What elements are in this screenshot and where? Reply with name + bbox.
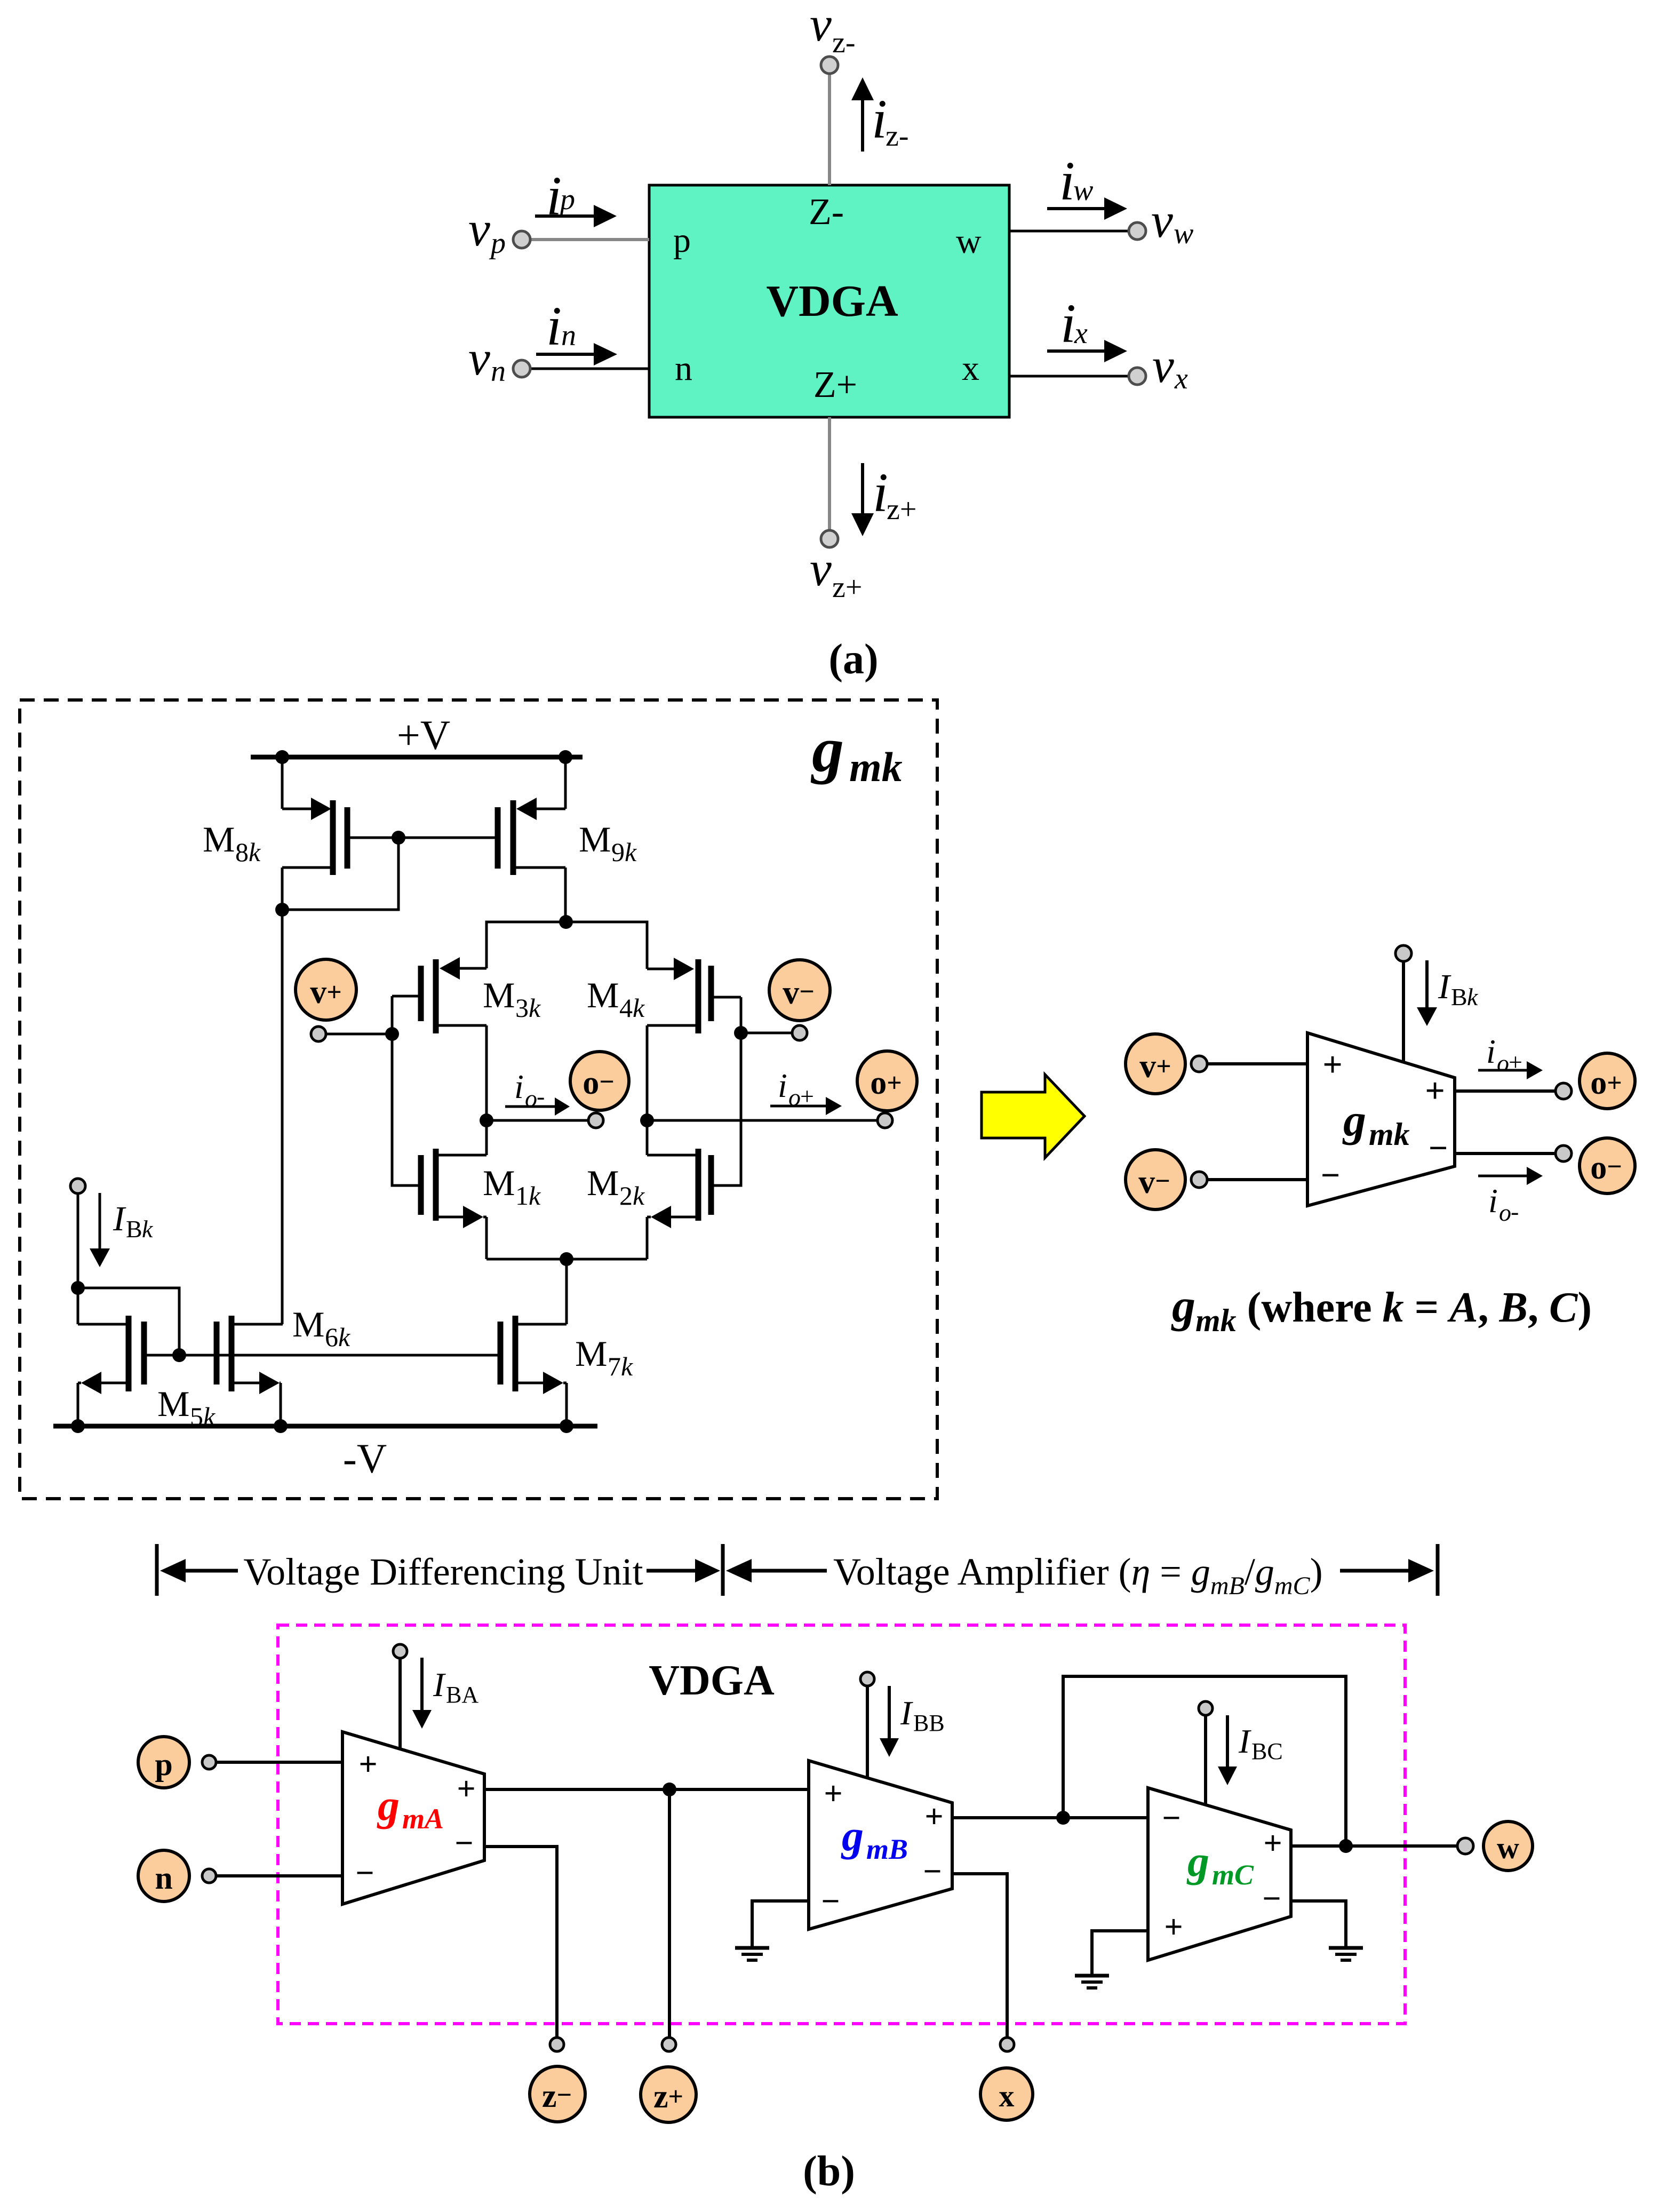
svg-text:w: w (1073, 174, 1093, 207)
svg-text:k: k (633, 1181, 645, 1211)
node dot -V mid (274, 1419, 288, 1433)
svg-text:o−: o− (1590, 1150, 1622, 1186)
wire IBk stem (77, 1193, 79, 1324)
svg-text:mC: mC (1212, 1859, 1254, 1891)
arrow ix (1047, 340, 1127, 362)
svg-text:z−: z− (542, 2078, 572, 2114)
terminal IBB (860, 1672, 874, 1686)
svg-text:M: M (203, 819, 235, 860)
svg-text:n: n (155, 1860, 172, 1896)
svg-text:6: 6 (325, 1322, 338, 1352)
svg-text:+: + (358, 1746, 377, 1783)
arrow IBB (880, 1686, 899, 1757)
node dot +V right (559, 750, 572, 764)
svg-text:o: o (788, 1084, 801, 1111)
svg-text:(a): (a) (828, 636, 878, 683)
OTA gmC trapezoid (1148, 1788, 1291, 1960)
terminal vn (513, 360, 530, 377)
svg-text:−: − (923, 1853, 942, 1890)
terminal z+ (662, 2038, 676, 2051)
svg-text:−: − (1321, 1156, 1340, 1194)
svg-text:g: g (810, 714, 844, 785)
svg-text:M: M (575, 1333, 607, 1374)
terminal vx (1129, 368, 1146, 385)
VDGA block U1 (649, 185, 1009, 417)
dimension bar right (1436, 1544, 1440, 1596)
svg-text:I: I (1438, 967, 1451, 1006)
wire v+ lead (326, 1033, 392, 1036)
svg-text:n: n (561, 319, 576, 352)
node w circle (1483, 1821, 1533, 1871)
terminal x (1000, 2038, 1014, 2051)
OTA gmB trapezoid (809, 1761, 952, 1929)
svg-text:BC: BC (1251, 1738, 1283, 1764)
svg-text:v+: v+ (310, 974, 342, 1010)
node dot IBk (71, 1281, 85, 1295)
wire z- stem (828, 73, 831, 185)
arrow io- (505, 1097, 570, 1116)
wire o- output (486, 1119, 588, 1122)
arrow IBA (412, 1658, 432, 1729)
svg-text:v+: v+ (1139, 1048, 1171, 1085)
node dot +V left (275, 750, 289, 764)
svg-text:k: k (142, 1215, 154, 1243)
terminal vw (1129, 222, 1146, 240)
wire z+ drop (668, 1789, 671, 2038)
svg-text:k: k (249, 837, 261, 867)
svg-text:g: g (841, 1811, 864, 1860)
terminal o- (588, 1113, 603, 1128)
svg-text:BA: BA (446, 1682, 478, 1708)
svg-text:I: I (433, 1666, 446, 1704)
svg-text:i: i (546, 165, 562, 227)
svg-text:k: k (529, 993, 541, 1023)
svg-text:M: M (483, 1163, 515, 1203)
svg-text:I: I (113, 1199, 126, 1238)
wire v- vertical to gates M4k M2k (711, 997, 741, 1185)
dashed enclosure VDGA (278, 1625, 1405, 2024)
ground gmC output (1329, 1948, 1363, 1960)
svg-text:-: - (1511, 1198, 1519, 1225)
node dot v+ tie (385, 1027, 399, 1041)
svg-text:M: M (157, 1383, 189, 1424)
wire o- output (1455, 1152, 1556, 1155)
terminal o- (1556, 1145, 1572, 1161)
transistor M7k (500, 1316, 567, 1426)
terminal vp (513, 231, 530, 248)
node dot M8k drain (275, 903, 289, 917)
node dot -V left (71, 1419, 85, 1433)
svg-text:v: v (468, 331, 490, 385)
wire v- lead (741, 1032, 792, 1035)
node p circle (138, 1737, 189, 1788)
svg-text:4: 4 (619, 993, 633, 1023)
arrow io- (1478, 1167, 1543, 1185)
svg-text:z+: z+ (653, 2079, 683, 2115)
wire M8k gate to M9k gate (347, 837, 498, 839)
svg-text:k: k (1467, 983, 1479, 1010)
wire p input (216, 1761, 342, 1764)
terminal o+ (1556, 1083, 1572, 1099)
wire o+ output (647, 1119, 878, 1122)
svg-text:o+: o+ (870, 1065, 902, 1101)
node dot -V right (560, 1419, 573, 1433)
svg-text:I: I (1238, 1722, 1251, 1760)
svg-text:M: M (587, 975, 619, 1015)
svg-text:x: x (1074, 317, 1088, 350)
node o- circle (1580, 1138, 1635, 1193)
wire IBk stem (1402, 961, 1405, 1062)
svg-text:v−: v− (1138, 1164, 1170, 1200)
svg-text:v: v (1152, 338, 1174, 393)
svg-text:8: 8 (235, 837, 249, 867)
svg-text:z+: z+ (887, 493, 916, 526)
dimension bar mid (721, 1544, 725, 1596)
svg-text:mB: mB (866, 1833, 908, 1865)
arrow IBk (1417, 960, 1437, 1026)
svg-text:x: x (1174, 362, 1188, 395)
svg-text:1: 1 (515, 1181, 529, 1211)
svg-text:mk: mk (849, 744, 903, 790)
wire x to vx (1009, 375, 1130, 378)
arrow right va (1340, 1559, 1434, 1582)
svg-text:w: w (956, 222, 982, 261)
transistor M2k (647, 1149, 711, 1259)
terminal n (202, 1869, 216, 1883)
terminal vz+ (821, 530, 838, 547)
wire vn to n (529, 368, 649, 370)
arrow iw (1047, 197, 1127, 220)
wire IBk to gate node (78, 1288, 179, 1355)
node v- circle (769, 960, 830, 1021)
node dot mirror rail (559, 915, 573, 929)
wire tail to M7k drain (565, 1259, 568, 1324)
node z- circle (530, 2066, 585, 2122)
dashed enclosure gmk cell (20, 700, 937, 1499)
svg-text:+: + (800, 1083, 814, 1110)
transistor M5k (78, 1316, 144, 1426)
svg-text:i: i (872, 89, 887, 150)
svg-text:z+: z+ (832, 571, 862, 604)
node z+ circle (641, 2067, 696, 2122)
svg-text:i: i (1060, 293, 1076, 354)
svg-text:+: + (1263, 1825, 1282, 1861)
arrow left vdu (160, 1559, 238, 1582)
svg-text:−: − (821, 1883, 840, 1920)
wire w to vw (1009, 230, 1130, 233)
svg-text:v: v (810, 542, 832, 596)
svg-text:M: M (483, 975, 515, 1015)
svg-text:v: v (810, 0, 832, 51)
svg-text:Z+: Z+ (813, 364, 857, 405)
svg-text:Voltage Differencing Unit: Voltage Differencing Unit (243, 1550, 643, 1593)
terminal IBC (1199, 1701, 1213, 1715)
svg-text:−: − (1262, 1881, 1281, 1917)
terminal o+ (878, 1113, 892, 1128)
svg-text:p: p (489, 227, 506, 260)
svg-text:+: + (1164, 1909, 1183, 1945)
wire n input (216, 1874, 342, 1877)
svg-text:z-: z- (886, 120, 909, 153)
svg-text:+: + (924, 1799, 943, 1835)
svg-text:k: k (625, 837, 637, 867)
wire v+ vertical to gates M3k M1k (392, 996, 421, 1185)
svg-text:−: − (355, 1855, 374, 1891)
svg-text:−: − (454, 1825, 473, 1861)
svg-text:-V: -V (343, 1435, 387, 1482)
svg-text:VDGA: VDGA (649, 1657, 775, 1704)
power rail -V (53, 1424, 597, 1429)
transistor M1k (421, 1149, 486, 1259)
svg-text:+: + (1322, 1045, 1343, 1084)
node dot tail (560, 1252, 573, 1266)
node v- circle (1126, 1150, 1185, 1210)
svg-text:p: p (673, 221, 691, 260)
terminal w (1457, 1838, 1473, 1854)
svg-text:VDGA: VDGA (766, 276, 898, 326)
svg-text:w: w (1174, 217, 1193, 250)
wire tail rail (486, 1258, 647, 1261)
wire gmA + output to gmB (484, 1788, 809, 1791)
wire M4k source to o+ node to M2k drain (646, 1025, 649, 1155)
wire gmC + input to ground (1092, 1931, 1148, 1974)
svg-text:i: i (514, 1068, 524, 1105)
wire IBA stem (398, 1658, 402, 1749)
node dot feedback tap (1056, 1811, 1070, 1825)
svg-text:i: i (1488, 1182, 1498, 1220)
node dot o- (480, 1113, 493, 1127)
svg-text:n: n (491, 355, 506, 388)
svg-text:9: 9 (611, 837, 625, 867)
wire gmB - input to ground (752, 1901, 809, 1946)
svg-text:k: k (338, 1322, 350, 1352)
node n circle (138, 1850, 189, 1901)
ground gmB input (735, 1948, 769, 1960)
node dot o+ (640, 1113, 654, 1127)
wire common gate line M5k M6k M7k (144, 1354, 500, 1357)
svg-text:v: v (468, 202, 490, 256)
wire mirror top rail (486, 922, 647, 969)
wire IBC stem (1204, 1715, 1207, 1805)
node dot gate tie (392, 831, 405, 845)
transistor M3k (392, 957, 486, 1033)
svg-text:-: - (537, 1083, 545, 1110)
svg-text:+: + (1425, 1071, 1445, 1110)
arrow iz+ down (851, 463, 874, 536)
svg-text:x: x (999, 2079, 1015, 2113)
svg-text:i: i (1059, 150, 1075, 212)
terminal v+ (311, 1027, 326, 1041)
node dot w fb (1339, 1839, 1353, 1853)
svg-text:B: B (1451, 983, 1467, 1010)
OTA gmA trapezoid (342, 1732, 484, 1904)
wire o+ output (1455, 1089, 1556, 1093)
node v+ circle (1126, 1034, 1185, 1094)
terminal IBA (393, 1644, 407, 1658)
arrow IBC (1218, 1715, 1237, 1785)
wire v+ input (1207, 1062, 1307, 1065)
transistor M4k (647, 958, 741, 1033)
svg-text:+: + (1509, 1048, 1522, 1076)
wire M3k source to o- node to M1k drain (485, 1025, 488, 1155)
arrow io+ (770, 1097, 842, 1115)
terminal IBk (1395, 945, 1411, 961)
svg-text:v: v (1151, 193, 1173, 248)
svg-text:g: g (1342, 1094, 1366, 1145)
svg-text:n: n (675, 349, 692, 388)
arrow iz- up (851, 77, 874, 152)
terminal v- (1191, 1172, 1207, 1188)
transistor M8k (282, 757, 347, 910)
arrow ip (535, 205, 617, 227)
terminal p (202, 1755, 216, 1769)
svg-text:g: g (377, 1781, 400, 1829)
svg-text:k: k (529, 1181, 541, 1211)
node o+ circle (1580, 1053, 1635, 1109)
svg-text:(b): (b) (803, 2148, 855, 2195)
wire vp to p (529, 238, 649, 241)
ground gmC input (1075, 1976, 1109, 1988)
svg-text:o: o (1499, 1199, 1511, 1226)
svg-text:M: M (292, 1304, 324, 1344)
wire left tall rail M8k drain to M6k drain (281, 910, 284, 1324)
svg-text:p: p (155, 1747, 172, 1782)
svg-text:BB: BB (913, 1710, 945, 1736)
svg-text:k: k (621, 1351, 633, 1381)
wire gmA - output (484, 1847, 557, 2038)
wire IBB stem (866, 1686, 869, 1778)
svg-text:x: x (962, 349, 979, 388)
svg-text:+: + (457, 1771, 475, 1807)
wire diode connection M8k (282, 838, 398, 910)
svg-text:Z-: Z- (809, 192, 844, 233)
arrow IBk (90, 1193, 110, 1267)
svg-text:B: B (126, 1215, 142, 1243)
svg-text:i: i (546, 296, 562, 357)
svg-text:−: − (1162, 1800, 1181, 1836)
wire gmB + output to gmC (952, 1816, 1148, 1819)
wire v- input (1207, 1178, 1307, 1181)
arrow right vdu (647, 1559, 720, 1582)
svg-text:mA: mA (402, 1803, 444, 1835)
svg-text:−: − (1429, 1129, 1448, 1167)
svg-text:mk: mk (1369, 1117, 1410, 1152)
svg-text:o: o (525, 1085, 537, 1112)
OTA gmk trapezoid (1307, 1033, 1455, 1206)
svg-text:o+: o+ (1590, 1065, 1622, 1101)
terminal z- (550, 2038, 564, 2051)
svg-text:i: i (873, 462, 888, 523)
node o+ circle (857, 1051, 917, 1111)
wire gmC + output to w (1291, 1844, 1457, 1848)
dimension bar left (155, 1544, 159, 1596)
wire z+ stem (828, 417, 831, 531)
node dot gate line (172, 1348, 186, 1362)
node v+ circle (296, 959, 356, 1020)
arrow in (536, 343, 617, 365)
yellow implication arrow (982, 1075, 1084, 1158)
node dot v- tie (734, 1026, 748, 1040)
svg-text:M: M (587, 1163, 619, 1203)
svg-text:w: w (1497, 1831, 1519, 1865)
svg-text:p: p (558, 183, 575, 216)
power rail +V (251, 755, 583, 760)
transistor M9k (498, 757, 565, 922)
node x circle (980, 2068, 1033, 2120)
svg-text:+V: +V (397, 712, 450, 758)
arrow io+ (1478, 1061, 1543, 1079)
terminal v- (792, 1025, 807, 1040)
svg-text:+: + (824, 1776, 842, 1812)
terminal v+ (1191, 1056, 1207, 1072)
svg-text:z-: z- (832, 26, 856, 59)
wire gmB - output to x (952, 1874, 1007, 2038)
svg-text:g: g (1186, 1837, 1209, 1885)
svg-text:o−: o− (583, 1065, 615, 1101)
svg-text:v−: v− (783, 975, 815, 1011)
svg-text:2: 2 (619, 1181, 633, 1211)
svg-text:I: I (900, 1694, 913, 1732)
node o- circle (570, 1052, 629, 1110)
svg-text:3: 3 (515, 993, 529, 1023)
svg-text:i: i (1486, 1032, 1496, 1070)
terminal IBk (70, 1179, 85, 1193)
arrow left va (726, 1559, 827, 1582)
node dot z+ tap (663, 1783, 676, 1796)
svg-text:Voltage Amplifier (η = gmB/gmC: Voltage Amplifier (η = gmB/gmC) (833, 1550, 1323, 1600)
svg-text:7: 7 (608, 1351, 621, 1381)
svg-text:o: o (1497, 1049, 1509, 1077)
terminal vz- (821, 57, 838, 74)
wire gmC - output to ground (1291, 1901, 1346, 1946)
svg-text:i: i (778, 1067, 787, 1104)
svg-text:M: M (579, 819, 611, 860)
transistor M6k (217, 1316, 283, 1426)
svg-text:k: k (633, 993, 645, 1023)
wire feedback up and over (1063, 1676, 1346, 1847)
